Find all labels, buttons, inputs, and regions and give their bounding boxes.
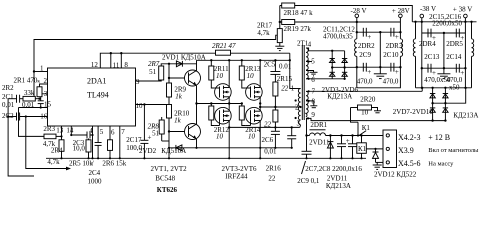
wire pin4 (92, 126, 94, 158)
svg-text:12: 12 (91, 61, 99, 69)
svg-text:КД213А: КД213А (453, 112, 478, 120)
capacitor 2C10 470,0 (390, 63, 392, 72)
wire X4.5-6 ground (376, 161, 386, 163)
svg-text:-28 V: -28 V (351, 7, 367, 15)
diode 2VD5 (344, 51, 346, 79)
capacitor C13 2C13 470,0x50 (427, 64, 429, 73)
svg-text:0,01: 0,01 (264, 147, 277, 155)
svg-text:2C14: 2C14 (446, 53, 462, 61)
svg-text:2R2: 2R2 (2, 84, 14, 92)
svg-text:2C10: 2C10 (383, 51, 399, 59)
svg-text:2R18 47 k: 2R18 47 k (284, 9, 314, 17)
svg-text:2DR3: 2DR3 (386, 42, 403, 50)
resistor R1 2R1 470k (37, 87, 42, 97)
svg-text:4,7k: 4,7k (257, 29, 270, 37)
wire pin7 elbow up (421, 88, 423, 92)
wire pin9 down to 2DR1 (306, 118, 308, 151)
wire bottom ground rail (46, 157, 366, 159)
transistor Q3 2VT3 IRFZ44 mosfet (215, 84, 232, 101)
svg-text:51: 51 (152, 129, 160, 137)
svg-text:2DR5: 2DR5 (446, 40, 463, 48)
terminal +38V (464, 14, 468, 18)
diode 2VD2 KD510A (176, 147, 182, 149)
svg-text:2R19 27k: 2R19 27k (284, 25, 312, 33)
diode 2VD8 (430, 107, 435, 109)
wire pin13 / 2R4 (61, 126, 63, 140)
ground X4.5-6 (376, 162, 378, 165)
resistor R18 2R18 47k (279, 6, 281, 23)
wire 2DR1 output (326, 135, 362, 137)
svg-text:К1: К1 (362, 124, 371, 132)
svg-text:КД213А: КД213А (326, 182, 351, 190)
svg-text:-38 V: -38 V (420, 5, 436, 13)
capacitor C5 2C5 0.01 snubber (274, 60, 276, 71)
wire 2R3 to pin 13 (56, 135, 62, 137)
ground pin8 tap (306, 101, 314, 106)
svg-text:2R5 10k: 2R5 10k (69, 159, 93, 167)
diode 2VD3 (331, 51, 333, 79)
svg-text:33k: 33k (24, 89, 35, 97)
wire pin4 to rectifier top (306, 48, 345, 51)
svg-text:7: 7 (121, 128, 125, 136)
resistor R9 2R9 1k (167, 83, 172, 97)
wire rectifier mid to 28V filter (332, 66, 357, 68)
wire pin5 stub (306, 61, 312, 63)
capacitor C1 2C1 0,01 (16, 95, 18, 103)
capacitor C7 2C7 2200,0x16 (341, 136, 343, 144)
svg-text:2R21 47: 2R21 47 (212, 42, 236, 50)
svg-text:1k: 1k (174, 117, 182, 125)
wire pin10 TL494 (136, 104, 170, 106)
svg-text:10: 10 (248, 133, 256, 141)
wire collector 2VT2 up (196, 104, 198, 125)
transistor Q4 2VT4 mosfet (246, 84, 263, 101)
svg-text:2VD12 КД522: 2VD12 КД522 (374, 170, 417, 178)
svg-text:+: + (395, 68, 399, 76)
svg-text:7: 7 (312, 88, 316, 96)
capacitor 2C7 bottom big (302, 150, 312, 152)
svg-text:2VD11: 2VD11 (309, 139, 330, 147)
wire vertical gate-drive left x169 (168, 64, 170, 83)
resistor R5 2R5 10k box (86, 140, 91, 152)
resistor R13 2R13 10 (239, 66, 244, 80)
node A junction pin1 (33, 70, 35, 72)
terminal +28V (399, 14, 403, 18)
transistor Q2 2VT2 BC548 (185, 124, 201, 140)
svg-text:BC548: BC548 (155, 174, 175, 182)
wire pin14 stub (71, 126, 87, 135)
resistor R2 2R2 33k (23, 96, 35, 101)
relay coil K1 box (357, 143, 367, 154)
capacitor 2C9 0,1 (291, 127, 293, 135)
svg-text:+: + (148, 134, 152, 142)
svg-text:0.01: 0.01 (279, 62, 292, 70)
wire pin6 / 2R6 (109, 126, 111, 140)
svg-text:2C17: 2C17 (126, 136, 142, 144)
inductor 2DR1 (307, 135, 310, 137)
capacitor C16 2C16 (455, 29, 457, 38)
svg-text:4: 4 (89, 127, 93, 135)
svg-text:2R1 470к: 2R1 470к (14, 77, 41, 85)
wire pin15 (19, 107, 48, 109)
svg-text:16: 16 (40, 112, 48, 120)
wire 28V rail (295, 21, 401, 23)
wire lower cap row 28V (357, 66, 401, 68)
svg-text:На массу: На массу (428, 160, 454, 167)
resistor R12 2R12 10 (209, 106, 214, 120)
svg-text:2: 2 (295, 103, 299, 111)
wire pin7 to 2VD7-10 (306, 90, 422, 92)
svg-text:/: / (92, 159, 94, 167)
svg-text:КД213А: КД213А (327, 93, 352, 101)
diode 2VD10 (443, 107, 448, 109)
wire pin9 (306, 118, 445, 120)
diode 2VD7 (432, 88, 434, 121)
svg-text:2VT1, 2VT2: 2VT1, 2VT2 (151, 165, 188, 173)
wire right mosfet column (259, 60, 261, 84)
capacitor C11 2C11 4700,0x35 (362, 28, 364, 37)
svg-text:0,01: 0,01 (2, 101, 15, 109)
svg-text:22: 22 (264, 121, 272, 129)
wire base 2VT1 (169, 77, 189, 79)
capacitor C8 2C8 (352, 136, 354, 144)
svg-text:2C4: 2C4 (89, 169, 101, 177)
svg-text:Вкл от магнитолы: Вкл от магнитолы (428, 147, 479, 154)
diode 2VD12 KD522 (375, 149, 377, 152)
svg-text:2R3: 2R3 (43, 125, 55, 133)
label slash 2C9 (302, 161, 306, 174)
wire pin9 TL494 (136, 80, 162, 81)
resistor R21 47 (216, 50, 231, 55)
svg-text:2C9 0,1: 2C9 0,1 (297, 177, 320, 185)
svg-text:+: + (367, 33, 371, 41)
svg-text:2C1: 2C1 (2, 93, 14, 101)
svg-text:51: 51 (149, 68, 157, 76)
resistor R11 2R11 10 (209, 66, 214, 80)
transformer T1 primary winding 1-2-3 (298, 89, 300, 125)
svg-text:8: 8 (124, 61, 128, 69)
wire emitter 2VT2 to lower return (196, 139, 198, 148)
svg-text:1: 1 (40, 65, 44, 73)
capacitor C3 2C3 10,0 (86, 132, 88, 139)
wire 2R7 top to diode wire (161, 64, 196, 66)
capacitor C15 2C15 2200,0x50 (427, 29, 429, 38)
wire upper cap row 28V (357, 31, 401, 33)
svg-text:15: 15 (44, 101, 52, 109)
svg-text:2C9: 2C9 (359, 51, 371, 59)
capacitor C6 2C6 0,01 (271, 130, 280, 132)
svg-text:2R16: 2R16 (266, 165, 282, 173)
transistor Q6 2VT6 mosfet (246, 107, 263, 125)
svg-text:5: 5 (311, 58, 315, 66)
svg-text:2R4: 2R4 (51, 147, 63, 155)
svg-text:2R15: 2R15 (277, 75, 293, 83)
svg-text:2C13: 2C13 (424, 53, 440, 61)
svg-text:2: 2 (44, 77, 48, 85)
svg-text:10: 10 (216, 72, 224, 80)
svg-text:+: + (367, 68, 371, 76)
connector X4/X3 block (383, 130, 397, 168)
wire to relay contact (351, 108, 359, 123)
capacitor C4 2C4 1000 (95, 142, 102, 144)
capacitor 2C9 470,0 (362, 63, 364, 72)
svg-text:К1: К1 (358, 145, 367, 153)
svg-text:22: 22 (281, 84, 289, 92)
wire pin1 (34, 71, 48, 73)
svg-text:10: 10 (136, 102, 144, 110)
resistor R3 2R3 4,7k (44, 134, 56, 139)
svg-text:1k: 1k (175, 92, 183, 100)
svg-text:11: 11 (113, 62, 120, 70)
svg-text:1: 1 (291, 84, 295, 92)
wire 28V section bottom (357, 67, 401, 88)
svg-text:2VD1 КД510А: 2VD1 КД510А (162, 54, 206, 62)
svg-text:13: 13 (56, 126, 64, 134)
wire 2R10 bottom to base 2VT2 (168, 118, 170, 132)
diode 2VD4 (330, 71, 335, 73)
diode 2VD6 (342, 71, 347, 73)
transistor Q1 2VT1 BC548 (185, 70, 201, 86)
inductor 2DR2 (356, 32, 358, 39)
diode 2VD9 (444, 88, 446, 121)
resistor R10 2R10 1k (167, 105, 172, 119)
svg-text:8: 8 (312, 97, 316, 105)
wire 38V section bottom (421, 68, 423, 88)
capacitor C17 2C17 100,0 (143, 105, 145, 141)
wire lower return y147.8 (169, 147, 292, 149)
relay contact K1 (357, 122, 359, 135)
svg-text:X4.2-3: X4.2-3 (398, 133, 420, 142)
transformer T1 secondary winding 4-5-6 (306, 48, 308, 79)
svg-text:0,01: 0,01 (22, 101, 35, 109)
svg-text:10: 10 (247, 72, 255, 80)
resistor R4 2R4 4,7k (59, 140, 64, 152)
svg-text:5: 5 (100, 128, 104, 136)
wire pin6 to rectifier bottom (306, 78, 345, 80)
wire stubs 38V down (421, 33, 423, 68)
svg-text:9: 9 (311, 111, 315, 119)
diode 2VD1 KD510A (176, 63, 182, 65)
wire transformer pin2 (260, 106, 295, 108)
svg-text:2DR4: 2DR4 (419, 40, 436, 48)
wire driver top rail (197, 59, 290, 61)
svg-text:10: 10 (216, 133, 224, 141)
wire left vertical to bottom (8, 99, 34, 176)
ground centre tap 5-6 (306, 71, 314, 73)
arrowhead (66, 167, 71, 171)
wire collector 2VT1 up / emitter down (196, 60, 198, 70)
svg-text:4: 4 (308, 41, 312, 49)
wire upper cap row 38V (421, 22, 423, 33)
svg-text:6: 6 (111, 128, 115, 136)
ground 38V mid (443, 68, 445, 74)
capacitor C12 2C12 (390, 28, 392, 37)
svg-text:x50: x50 (449, 84, 460, 92)
svg-text:4700,0x35: 4700,0x35 (323, 32, 353, 40)
svg-text:2C6: 2C6 (262, 136, 274, 144)
op-amp U1 TL494 chip box 2DA1 (48, 68, 136, 126)
wire to 2R3 (19, 108, 45, 137)
wire pin5 / 2C4 (97, 126, 99, 143)
svg-text:6: 6 (311, 76, 315, 84)
svg-text:+ 12 В: + 12 В (428, 133, 450, 142)
ground below 2R17 (279, 43, 281, 47)
wire mid vertical 28V (379, 32, 381, 67)
svg-text:+: + (395, 33, 399, 41)
wire rectifier 38V mid to +38 bottom (433, 88, 466, 103)
wire feedback arrow lower (26, 117, 66, 169)
resistor R19 2R19 27k (282, 20, 295, 25)
resistor R20 2R20 10 (351, 107, 358, 109)
svg-text:X3.9: X3.9 (398, 146, 414, 155)
svg-text:2DR1: 2DR1 (310, 121, 327, 129)
wire mid vertical 38V (443, 33, 445, 68)
resistor R14 2R14 10 (239, 106, 244, 120)
wire transformer pin3 (229, 126, 300, 128)
wire coil to X3.9 (366, 148, 385, 150)
svg-text:2R6 15k: 2R6 15k (102, 159, 126, 167)
capacitor pin3 filter (38, 100, 44, 102)
svg-text:2DA1: 2DA1 (87, 76, 107, 85)
resistor R16 2R16 22 (273, 110, 278, 122)
inductor 2DR5 (471, 22, 473, 39)
wire 2R9 bottom to rail (168, 97, 170, 158)
inductor 2DR3 (399, 32, 401, 39)
wire pin3 (41, 94, 48, 101)
svg-text:470,0: 470,0 (383, 78, 399, 86)
wire pin2 (40, 84, 48, 87)
svg-text:X4.5-6: X4.5-6 (398, 159, 420, 168)
svg-text:2R17: 2R17 (257, 21, 273, 29)
wire top rail to 38V corner (295, 6, 413, 22)
diode 2VD11 KD213A (329, 136, 331, 159)
svg-text:КТ626: КТ626 (157, 186, 178, 194)
transformer T1 secondary winding 7-8-9 (306, 91, 308, 117)
transistor Q5 2VT5 mosfet (215, 107, 232, 125)
wire left mosfet column (228, 60, 230, 84)
wire node input y98.7 (8, 98, 16, 100)
capacitor C2 2C2 0,01 (16, 113, 18, 121)
svg-text:22: 22 (268, 174, 276, 182)
terminal -38V (420, 14, 424, 18)
svg-text:3: 3 (44, 90, 48, 98)
wire pin16 (8, 116, 16, 118)
svg-text:КД510А: КД510А (161, 147, 186, 155)
wire pin7 stub (119, 126, 121, 158)
svg-text:3: 3 (297, 120, 301, 128)
svg-text:10,0: 10,0 (73, 144, 86, 152)
wire feedback top-left loop (34, 35, 277, 98)
svg-text:2200,0x50: 2200,0x50 (432, 20, 462, 28)
svg-text:4,7k: 4,7k (47, 158, 60, 166)
wire pins 12 11 8 top bus (100, 53, 289, 68)
svg-text:IRFZ44: IRFZ44 (225, 173, 248, 181)
svg-text:2DR2: 2DR2 (358, 42, 375, 50)
resistor R8 2R8 51 (159, 120, 164, 134)
wire 38V rail (412, 21, 476, 23)
wire supply drop to transformer pin1 (290, 53, 296, 88)
svg-text:470,0: 470,0 (357, 78, 373, 86)
ground 28V mid (379, 67, 381, 74)
svg-text:2C7,2C8 2200,0x16: 2C7,2C8 2200,0x16 (305, 165, 362, 173)
svg-text:2R20: 2R20 (360, 96, 376, 104)
transformer T1 2T1 core (301, 45, 303, 120)
capacitor C14 2C14 470,0 (455, 64, 457, 73)
svg-text:9: 9 (136, 78, 140, 86)
svg-text:2C5: 2C5 (264, 61, 276, 69)
inductor 2DR4 (415, 22, 417, 39)
resistor R17 2R17 4,7k trimmer (279, 22, 281, 29)
svg-text:TL494: TL494 (87, 91, 109, 100)
svg-text:1000: 1000 (88, 177, 103, 185)
resistor R15 2R15 22 (274, 74, 276, 82)
svg-text:14: 14 (66, 126, 74, 134)
resistor R5 2R5 10k (88, 139, 90, 140)
resistor R7 2R7 51 (159, 66, 164, 80)
svg-text:2C2: 2C2 (2, 112, 14, 120)
svg-text:2VD2: 2VD2 (139, 147, 157, 155)
resistor R6 2R6 15k (108, 140, 113, 151)
svg-text:+ 28V: + 28V (392, 7, 410, 15)
wire gate-drive lower rail (197, 103, 242, 105)
svg-text:10: 10 (361, 108, 369, 116)
svg-text:2VD7-2VD10: 2VD7-2VD10 (393, 108, 434, 116)
terminal -28V (355, 14, 359, 18)
wire lower cap row 38V (422, 67, 466, 69)
